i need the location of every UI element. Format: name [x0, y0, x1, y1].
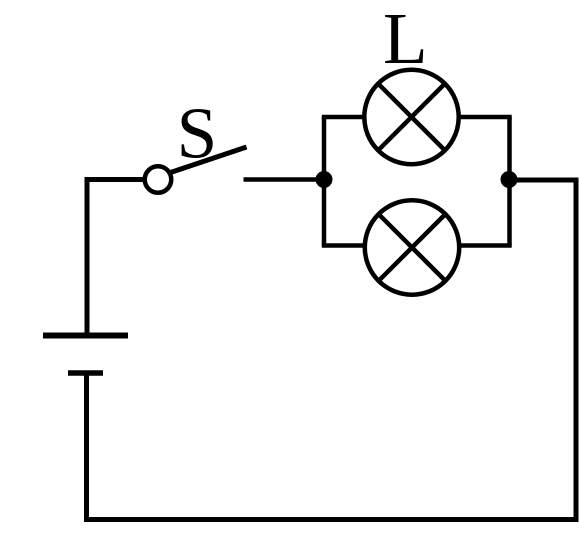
battery long plate (+) — [43, 333, 128, 339]
battery cell — [43, 336, 128, 374]
wire: right branch vertical — [507, 117, 512, 246]
wire: bottom branch left segment — [322, 243, 366, 248]
wire: switch right stub to left junction — [244, 177, 325, 182]
svg-text:L: L — [383, 0, 428, 79]
wire: top branch left segment — [322, 115, 366, 120]
battery short plate (-) — [68, 370, 103, 376]
switch blade (open) — [169, 147, 247, 173]
node: left junction dot — [316, 171, 333, 188]
lamp L1 (top): circle with X — [364, 70, 458, 164]
wire: bottom branch right segment — [457, 243, 512, 248]
switch pivot circle — [145, 166, 172, 193]
node: right junction dot — [501, 171, 518, 188]
wire: top branch right segment — [457, 115, 512, 120]
switch S — [145, 147, 247, 193]
wire: left branch vertical — [322, 117, 327, 246]
wire: top-left horizontal from switch to left corner, then left vertical down to battery — [87, 180, 144, 334]
wire: right junction to right edge, down, bottom, and up-left to battery — [87, 180, 577, 520]
lamp L2 (bottom): circle with X — [365, 200, 459, 294]
svg-text:S: S — [177, 93, 218, 174]
